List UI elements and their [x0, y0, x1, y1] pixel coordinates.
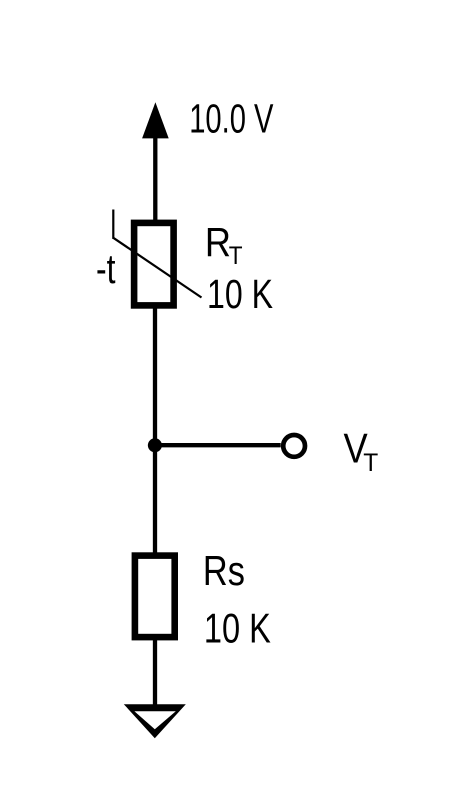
svg-text:T: T: [229, 242, 243, 270]
wire junction to VT terminal: [155, 443, 281, 447]
junction node (VT net): [148, 438, 162, 452]
ground: [124, 704, 186, 738]
svg-text:10 K: 10 K: [204, 604, 271, 651]
resistor Rs: [135, 556, 175, 638]
wire Rs to ground: [153, 637, 157, 708]
thermistor RT: [113, 210, 201, 306]
terminal VT: [283, 435, 305, 457]
wire RT to junction to Rs: [153, 305, 157, 556]
svg-text:-t: -t: [96, 245, 116, 292]
svg-text:10.0 V: 10.0 V: [189, 95, 274, 141]
svg-text:10 K: 10 K: [207, 271, 273, 317]
power arrow (10.0 V supply): [142, 102, 169, 222]
svg-text:R: R: [205, 219, 231, 265]
svg-text:T: T: [363, 449, 378, 477]
svg-text:Rs: Rs: [203, 547, 245, 594]
